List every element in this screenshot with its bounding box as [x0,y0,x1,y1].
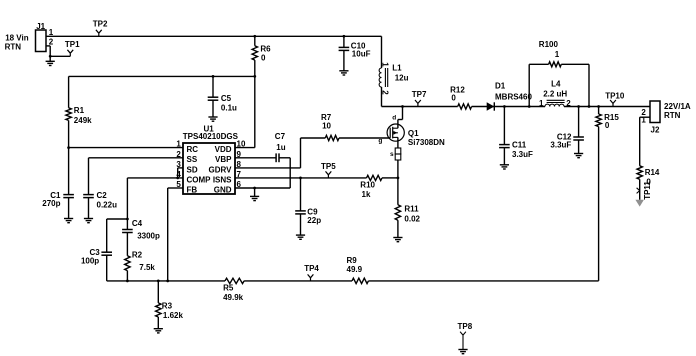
svg-text:Q1: Q1 [408,129,419,138]
svg-text:1.62k: 1.62k [163,311,184,320]
svg-text:1: 1 [176,140,181,149]
svg-text:0.22u: 0.22u [97,200,118,209]
svg-text:1u: 1u [276,143,285,152]
svg-text:7.5k: 7.5k [139,263,155,272]
svg-text:100p: 100p [81,257,99,266]
svg-text:L1: L1 [392,63,402,72]
svg-text:0.1u: 0.1u [221,104,237,113]
svg-text:TP5: TP5 [321,162,336,171]
svg-text:TP10: TP10 [605,91,625,100]
svg-text:COMP: COMP [187,175,212,184]
svg-text:R5: R5 [223,283,234,292]
svg-text:1: 1 [641,116,646,125]
svg-text:0: 0 [451,94,456,103]
svg-text:FB: FB [187,185,198,194]
svg-text:2: 2 [176,150,181,159]
svg-text:2: 2 [381,90,390,95]
svg-text:R100: R100 [539,40,559,49]
svg-text:0.02: 0.02 [404,214,420,223]
svg-text:2: 2 [49,38,54,47]
svg-text:J2: J2 [651,125,660,134]
svg-text:g: g [378,137,382,144]
svg-text:ISNS: ISNS [213,175,232,184]
svg-text:10uF: 10uF [352,50,371,59]
svg-text:1: 1 [381,62,390,67]
svg-text:2.2 uH: 2.2 uH [543,89,567,98]
svg-text:TPS40210DGS: TPS40210DGS [183,132,239,141]
svg-text:10: 10 [237,140,246,149]
svg-text:12u: 12u [395,74,409,83]
svg-text:TP2: TP2 [93,20,108,29]
svg-text:RTN: RTN [664,111,681,120]
svg-text:R7: R7 [321,113,332,122]
svg-text:C11: C11 [512,141,527,150]
svg-text:8: 8 [237,160,242,169]
svg-text:1: 1 [539,99,544,108]
svg-text:Si7308DN: Si7308DN [408,138,445,147]
svg-text:RC: RC [187,145,199,154]
svg-text:0: 0 [605,121,610,130]
svg-text:TP7: TP7 [412,90,427,99]
svg-text:C5: C5 [221,94,232,103]
svg-text:1k: 1k [362,190,371,199]
svg-text:18 Vin: 18 Vin [5,33,29,42]
svg-text:R2: R2 [132,251,143,260]
svg-text:L4: L4 [551,79,561,88]
svg-text:RTN: RTN [5,43,22,52]
svg-text:3.3uF: 3.3uF [550,141,571,150]
svg-text:d: d [392,114,396,121]
svg-text:GND: GND [214,185,232,194]
svg-text:270p: 270p [42,199,60,208]
svg-text:TP11: TP11 [643,181,652,200]
svg-text:C2: C2 [97,191,108,200]
svg-text:R11: R11 [404,205,419,214]
svg-text:7: 7 [237,170,242,179]
svg-text:2: 2 [566,99,571,108]
svg-text:249k: 249k [74,116,92,125]
svg-text:R6: R6 [260,44,271,53]
svg-text:VBP: VBP [215,155,232,164]
svg-text:1: 1 [555,50,560,59]
svg-text:SD: SD [187,165,198,174]
svg-text:GDRV: GDRV [209,165,233,174]
svg-text:10: 10 [322,122,331,131]
svg-text:R1: R1 [74,106,85,115]
svg-text:TP1: TP1 [65,40,80,49]
svg-text:49.9k: 49.9k [223,293,244,302]
svg-text:22p: 22p [307,216,321,225]
svg-text:MBRS460: MBRS460 [495,93,532,102]
svg-text:3.3uF: 3.3uF [512,150,533,159]
svg-text:VDD: VDD [215,145,232,154]
svg-text:5: 5 [176,180,181,189]
svg-text:4: 4 [176,170,181,179]
svg-text:TP4: TP4 [304,264,319,273]
svg-text:R3: R3 [162,302,173,311]
svg-text:C4: C4 [132,219,143,228]
svg-text:s: s [390,151,394,158]
svg-text:1: 1 [49,28,54,37]
svg-text:R14: R14 [645,168,660,177]
svg-text:D1: D1 [495,82,506,91]
svg-text:49.9: 49.9 [347,265,363,274]
svg-text:R10: R10 [360,181,375,190]
svg-text:6: 6 [237,180,242,189]
svg-text:SS: SS [187,155,198,164]
svg-text:3300p: 3300p [137,231,160,240]
svg-text:0: 0 [261,54,266,63]
svg-text:J1: J1 [36,22,45,31]
svg-text:C7: C7 [275,132,286,141]
svg-text:22V/1A: 22V/1A [664,102,691,111]
svg-text:R9: R9 [347,256,358,265]
svg-text:3: 3 [176,160,181,169]
svg-text:TP8: TP8 [458,322,473,331]
svg-text:9: 9 [237,150,242,159]
